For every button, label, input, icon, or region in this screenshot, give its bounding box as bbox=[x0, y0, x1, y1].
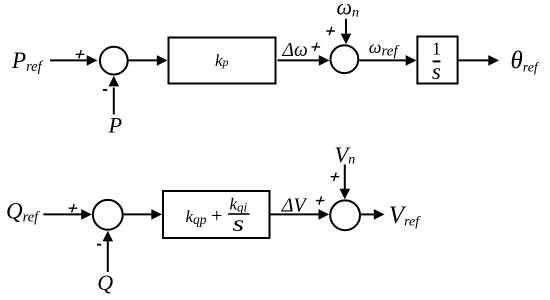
svg-text:Δω: Δω bbox=[282, 40, 308, 61]
svg-text:s: s bbox=[232, 210, 244, 236]
svg-text:Q: Q bbox=[97, 270, 113, 295]
svg-text:ΔV: ΔV bbox=[281, 195, 309, 217]
svg-text:s: s bbox=[432, 59, 441, 84]
svg-text:1: 1 bbox=[432, 39, 441, 59]
svg-text:+: + bbox=[211, 205, 222, 227]
svg-text:P: P bbox=[108, 112, 122, 137]
